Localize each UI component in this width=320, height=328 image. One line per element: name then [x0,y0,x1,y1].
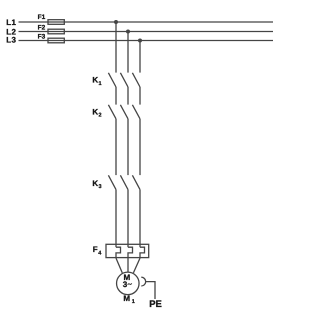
wire L3 horizontal [19,40,274,42]
wire PE [146,282,155,299]
svg-text:F1: F1 [38,14,46,21]
wire to motor left [116,258,122,273]
svg-text:3: 3 [123,280,128,289]
svg-text:L1: L1 [6,18,16,27]
svg-text:L3: L3 [6,36,16,45]
wire phase2 between K1 K2 [127,87,129,105]
svg-text:2: 2 [99,113,102,119]
svg-text:1: 1 [132,299,135,305]
motor M1 [117,272,140,295]
wire phase1 vertical upper [115,22,117,73]
wire phase2 K3 to F4 [127,190,129,248]
junction dot phase 3 [138,39,142,43]
wire phase1 between K1 K2 [115,87,117,105]
wire phase1 K3 to F4 [115,190,117,248]
thermal element phase2 [128,247,133,258]
wire phase3 vertical upper [139,41,141,73]
svg-text:K: K [92,76,98,85]
svg-text:1: 1 [99,81,102,87]
svg-text:K: K [92,107,98,116]
junction dot phase 1 [114,20,118,24]
wire L1 horizontal [19,21,274,23]
svg-text:F2: F2 [38,24,46,31]
wire phase3 K3 to F4 [139,190,141,248]
thermal element phase1 [116,247,121,258]
svg-text:3: 3 [99,184,102,190]
wire phase2 vertical upper [127,32,129,73]
PE tap arc [141,277,145,286]
svg-text:4: 4 [98,250,102,256]
wire phase3 between K1 K2 [139,87,141,105]
svg-text:F: F [93,245,98,254]
svg-text:M: M [123,294,130,303]
wire phase3 between K2 K3 [139,119,141,175]
wire to motor right [133,258,140,273]
svg-text:K: K [92,179,98,188]
wire to motor middle [127,258,129,273]
junction dot phase 2 [126,30,130,34]
wire phase2 between K2 K3 [127,119,129,175]
thermal element phase3 [140,247,145,258]
wire L2 horizontal [19,31,274,33]
svg-text:F3: F3 [38,33,46,40]
svg-text:PE: PE [149,299,162,310]
wire phase1 between K2 K3 [115,119,117,175]
